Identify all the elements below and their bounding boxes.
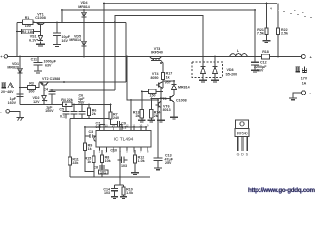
resistor R15 (92, 156, 95, 162)
wire pin16 stub (98, 124, 100, 130)
wire pin4 stub (119, 147, 121, 151)
wire main rail y=56.5 (8, 56, 301, 58)
wire base rail y=22.3 (17, 21, 126, 23)
svg-text:IC TL494: IC TL494 (114, 136, 134, 142)
ground C13 (154, 168, 162, 170)
svg-text:D: D (241, 153, 244, 157)
wire minus output lead (293, 93, 302, 98)
svg-text:240: 240 (113, 116, 119, 120)
ground C11 (34, 71, 42, 73)
svg-text:20~48V: 20~48V (1, 90, 14, 94)
svg-text:22k: 22k (72, 161, 78, 165)
svg-text:1k: 1k (87, 160, 91, 164)
TO-220 package VT3 (235, 120, 249, 151)
svg-text:IRF540: IRF540 (151, 51, 163, 55)
wire VT4 emitter down (160, 88, 162, 120)
resistor R11 (68, 157, 71, 165)
svg-text:10k: 10k (105, 159, 111, 163)
capacitor C13 (154, 158, 163, 160)
resistor R21 (265, 28, 268, 35)
wire x=104 vertical (103, 22, 105, 130)
wire R8 to cap (101, 163, 103, 177)
svg-text:+: + (310, 55, 313, 60)
wire VT2 emitter drop (43, 85, 45, 96)
svg-text:G: G (237, 153, 240, 157)
svg-text:160V: 160V (8, 101, 17, 105)
svg-text:S: S (246, 153, 249, 157)
diode VD6 (172, 85, 177, 90)
diode VD5 (82, 41, 87, 46)
capacitor C8 (99, 166, 105, 168)
ground VD8a (199, 80, 207, 82)
resistor R2 (22, 29, 34, 33)
wire VS1 zener branch (40, 32, 42, 36)
ground C14 (111, 197, 118, 199)
dashed module box VD8 (192, 62, 223, 78)
wire R3 rail y=87.5 (20, 87, 28, 89)
terminal output minus (302, 91, 306, 95)
svg-text:8: 8 (147, 150, 149, 154)
svg-text:2: 2 (106, 150, 108, 154)
wire R5 leads (88, 105, 90, 109)
resistor R17 (161, 73, 164, 80)
resistor R16 (149, 89, 157, 93)
wire pin1 stub (98, 147, 100, 151)
inductor L (230, 54, 247, 57)
svg-text:103: 103 (104, 191, 110, 195)
terminal input minus (6, 110, 10, 114)
wire R21 column (266, 4, 268, 29)
svg-text:150: 150 (150, 93, 156, 97)
wire C2 branch x=57 (56, 22, 58, 33)
scan noise speckles (277, 10, 312, 18)
svg-text:VD8: VD8 (227, 68, 234, 72)
wire C5 ground lead (65, 114, 67, 119)
transistor VT5 (168, 95, 175, 102)
svg-text:MR814: MR814 (78, 5, 90, 9)
svg-text:IRF540: IRF540 (237, 132, 248, 136)
capacitor C7 (79, 112, 86, 114)
svg-text:VT2 C1588: VT2 C1588 (42, 77, 60, 81)
capacitor C14 (111, 188, 118, 190)
svg-text:R4 22k: R4 22k (61, 98, 73, 102)
svg-text:4: 4 (119, 150, 121, 154)
wire left vertical x=17 (16, 22, 18, 56)
ground C2 (53, 45, 61, 47)
transistor VT6 (156, 101, 162, 108)
wire R8 column (101, 150, 103, 155)
resistor R3 (28, 85, 36, 89)
svg-text:MR820: MR820 (7, 66, 19, 70)
wire timing pair header y=185 (115, 184, 124, 186)
wire VT4 to VD6 top y=81 (163, 81, 174, 84)
transistor VT1 (36, 22, 45, 24)
svg-text:C11: C11 (31, 58, 37, 62)
wire pin7 stub (140, 147, 142, 151)
wire R22 to rail (277, 35, 279, 57)
label input chinese (2, 83, 14, 89)
wire bottom bus y=176.8 (70, 176, 150, 178)
resistor R5 (88, 108, 91, 116)
wire pin5 column x=120 (119, 150, 121, 185)
capacitor C10 (118, 157, 128, 164)
svg-text:103: 103 (121, 164, 127, 168)
svg-text:2k: 2k (136, 114, 140, 118)
wire input plus branch x=20 (19, 57, 21, 98)
wire R9 to lower bus (85, 151, 94, 172)
wire C7 leads (81, 105, 83, 112)
capacitor C9 (118, 121, 120, 127)
wire R14 bottom (150, 118, 152, 120)
svg-text:16V: 16V (62, 39, 69, 43)
wire C9 right lead (120, 124, 122, 130)
svg-text:7: 7 (140, 150, 142, 154)
diode VD4 (82, 12, 87, 17)
ground output minus (289, 98, 297, 100)
ground VS1 (36, 44, 45, 46)
capacitor C4 (49, 91, 56, 94)
wire R11 to bottom bus (69, 165, 71, 177)
wire R14 top lead (150, 99, 152, 110)
capacitor C12 (251, 62, 259, 65)
wire VD4-VD5 branch x=84 (83, 10, 85, 57)
wire VD2 bottom lead (43, 100, 45, 104)
svg-text:25V: 25V (165, 161, 172, 165)
svg-text:C8: C8 (93, 165, 98, 169)
resistor R12 (133, 155, 136, 163)
svg-text:4: 4 (270, 7, 272, 11)
svg-text:16V: 16V (257, 69, 264, 73)
terminal output plus (301, 55, 305, 59)
wire R13 top lead (141, 91, 143, 109)
wire pin5 stub (126, 147, 128, 151)
wire top feedback bus y=3.5 (103, 4, 105, 23)
svg-text:C5: C5 (59, 107, 64, 111)
svg-text:1k: 1k (88, 147, 92, 151)
svg-text:12V: 12V (33, 100, 40, 104)
wire pin13 stub (119, 127, 121, 131)
IC U1 TL494 (94, 131, 151, 148)
wire pin11 drop x=131 (130, 100, 132, 131)
wire decoupling bus y=118.3 (70, 117, 111, 119)
ground C12 (251, 70, 259, 72)
svg-text:R3: R3 (29, 82, 34, 86)
ground R12 (131, 173, 139, 175)
svg-text:101: 101 (100, 170, 106, 174)
wire C14 lead (114, 185, 116, 188)
wire C14 to ground (114, 191, 116, 197)
svg-text:http://www.go-gddq.com: http://www.go-gddq.com (248, 187, 316, 194)
wire C4 bottom lead (51, 94, 53, 105)
capacitor C6 (71, 112, 78, 114)
wire vcc bus y=104.5 (20, 104, 111, 106)
wire freewheel VD8a lead (202, 57, 204, 67)
resistor R10 (122, 187, 125, 195)
wire R5 ground lead (88, 116, 90, 119)
svg-text:50V: 50V (78, 101, 85, 105)
wire emitter bus y=90 (50, 89, 116, 91)
wire R7 bottom lead (111, 119, 118, 124)
IC pin numbers top (98, 124, 149, 154)
wire C7 ground lead (81, 114, 83, 119)
svg-text:-: - (310, 91, 312, 96)
wire C13 to ground (157, 160, 159, 167)
svg-text:C1008: C1008 (35, 16, 46, 20)
wire freewheel VD8b lead (214, 57, 216, 67)
resistor R22 (276, 28, 279, 35)
ground VT4 (157, 120, 165, 122)
resistor R18 (262, 54, 270, 59)
wire VS1 to ground (40, 42, 42, 44)
wire VD8a bottom (202, 74, 204, 81)
label output chinese (296, 67, 307, 73)
svg-text:17V: 17V (301, 77, 308, 81)
diode VD1 (18, 68, 23, 73)
capacitor C11 (34, 62, 43, 64)
svg-text:1.0k: 1.0k (126, 191, 133, 195)
wire VT1 base to R2 (40, 24, 42, 31)
svg-text:1k: 1k (166, 75, 170, 79)
svg-text:0.1: 0.1 (60, 115, 65, 119)
wire C4 top lead (51, 90, 53, 91)
capacitor C3 (85, 134, 96, 138)
svg-text:300: 300 (29, 90, 35, 94)
wire collector bus y=82 (39, 81, 126, 83)
capacitor C5 (63, 112, 70, 114)
svg-text:VT5: VT5 (160, 97, 167, 101)
wire VT4 collector (162, 80, 164, 89)
wire top feedback horizontal (104, 3, 277, 5)
svg-text:1.0k: 1.0k (138, 159, 145, 163)
svg-text:9: 9 (147, 124, 149, 128)
wire R13 bottom (141, 118, 143, 120)
svg-text:6.1V: 6.1V (29, 38, 37, 42)
svg-text:MR814: MR814 (178, 86, 190, 90)
svg-text:1A: 1A (302, 82, 307, 86)
svg-text:C1008: C1008 (176, 98, 187, 102)
svg-text:2.5k: 2.5k (281, 32, 288, 36)
wire C5 leads (65, 105, 67, 112)
svg-text:S5-200: S5-200 (226, 72, 238, 76)
svg-text:100: 100 (25, 24, 31, 28)
diode VD8a (201, 67, 206, 74)
wire R21 to ground (266, 35, 268, 41)
resistor R9 (83, 143, 86, 151)
wire left bias column x=85 (84, 127, 86, 143)
wire pin11 stub (133, 127, 135, 131)
ground R10 (120, 197, 127, 199)
wire VD6 to VT5 (173, 90, 175, 96)
ground VD8b (211, 80, 219, 82)
mosfet VT3 inline (150, 57, 162, 61)
resistor R4 (63, 102, 73, 107)
wire R22 column (277, 4, 279, 29)
wire R10 lead (123, 185, 125, 187)
svg-text:7.5k: 7.5k (257, 32, 264, 36)
diode VD8b (213, 67, 218, 74)
box C8b (99, 170, 109, 174)
wire R2 rail y=31.5 (17, 31, 41, 33)
wire pin1 column x=94 (93, 150, 95, 177)
svg-text:5: 5 (126, 150, 128, 154)
ground VT5 (170, 117, 178, 119)
svg-text:C4: C4 (43, 87, 48, 91)
zener VS1 (37, 35, 43, 40)
svg-text:C12: C12 (260, 60, 267, 64)
wire pin16 jog (99, 123, 104, 125)
wire VT5 base feed (151, 98, 167, 100)
ground R21 (262, 41, 270, 43)
wire pin14 stub (112, 127, 114, 131)
wire R3 to VT2 base (36, 82, 39, 87)
svg-text:R1: R1 (25, 16, 30, 20)
svg-text:100V: 100V (45, 109, 54, 113)
chassis ground input (17, 118, 25, 121)
wire deadtime drop x=135 (134, 150, 136, 155)
wire R10 to ground (123, 195, 125, 197)
wire C6 leads (73, 105, 75, 112)
wire x=158 vertical to C13 (157, 100, 159, 158)
wire R11 branch x=69.8 (69, 118, 71, 157)
svg-text:R18: R18 (262, 50, 269, 54)
wire pin10 stub (140, 127, 142, 131)
ground R13 (138, 120, 146, 122)
wire pin8 stub (147, 147, 149, 151)
svg-text:63V: 63V (45, 63, 52, 67)
resistor R13 (140, 110, 143, 119)
svg-text:8050: 8050 (151, 76, 159, 80)
capacitor C1 (17, 94, 24, 96)
svg-text:2k: 2k (154, 114, 158, 118)
svg-text:+: + (0, 54, 3, 59)
ground R14 (148, 120, 156, 122)
svg-text:2k: 2k (92, 112, 96, 116)
wire R12 to ground (134, 163, 136, 173)
capacitor C2 (53, 33, 61, 35)
wire driver feed x=127 y=100 (127, 57, 158, 101)
wire C12 lead (254, 57, 256, 63)
terminal input plus (4, 55, 8, 59)
svg-text:1: 1 (99, 150, 101, 154)
wire pin6 stub (133, 147, 135, 151)
wire pin3 stub (112, 147, 114, 151)
wire C12 to ground (254, 65, 256, 70)
resistor R7 (109, 112, 112, 119)
svg-text:C3: C3 (89, 130, 94, 134)
svg-text:R2 11k: R2 11k (22, 30, 33, 34)
wire emitter bus y=10 (62, 10, 255, 57)
wire VD8b bottom (214, 74, 216, 81)
capacitor C11 lead (37, 57, 39, 63)
wire R16 right lead (156, 90, 163, 92)
wire gate drop (161, 60, 163, 72)
zener VD2 (42, 95, 47, 101)
wire minus terminal lead (10, 111, 21, 117)
resistor R1 (23, 20, 34, 25)
svg-text:-: - (0, 109, 2, 114)
transistor VT2 (40, 82, 48, 85)
wire VT5 emitter to ground (173, 102, 175, 117)
resistor R8 (100, 155, 103, 163)
svg-text:MR814: MR814 (69, 38, 81, 42)
wire x=126 vertical (125, 22, 127, 82)
svg-text:VD7: VD7 (165, 81, 171, 85)
resistor R14 (150, 110, 153, 119)
wire R16 leads (142, 90, 149, 92)
wire R7 leads (110, 105, 112, 113)
wire C1 bottom lead (19, 97, 21, 105)
wire C2 to ground (56, 36, 58, 45)
svg-text:L: L (237, 49, 240, 53)
wire C11 to ground (37, 65, 39, 71)
wire switch-node sense y=15.5 (115, 16, 203, 91)
svg-text:8013: 8013 (163, 108, 171, 112)
wire pin2 stub (105, 147, 107, 152)
wire C6 ground lead (73, 114, 75, 119)
wire ic top feed y=127 (85, 127, 146, 131)
transistor VT4 (156, 82, 163, 89)
